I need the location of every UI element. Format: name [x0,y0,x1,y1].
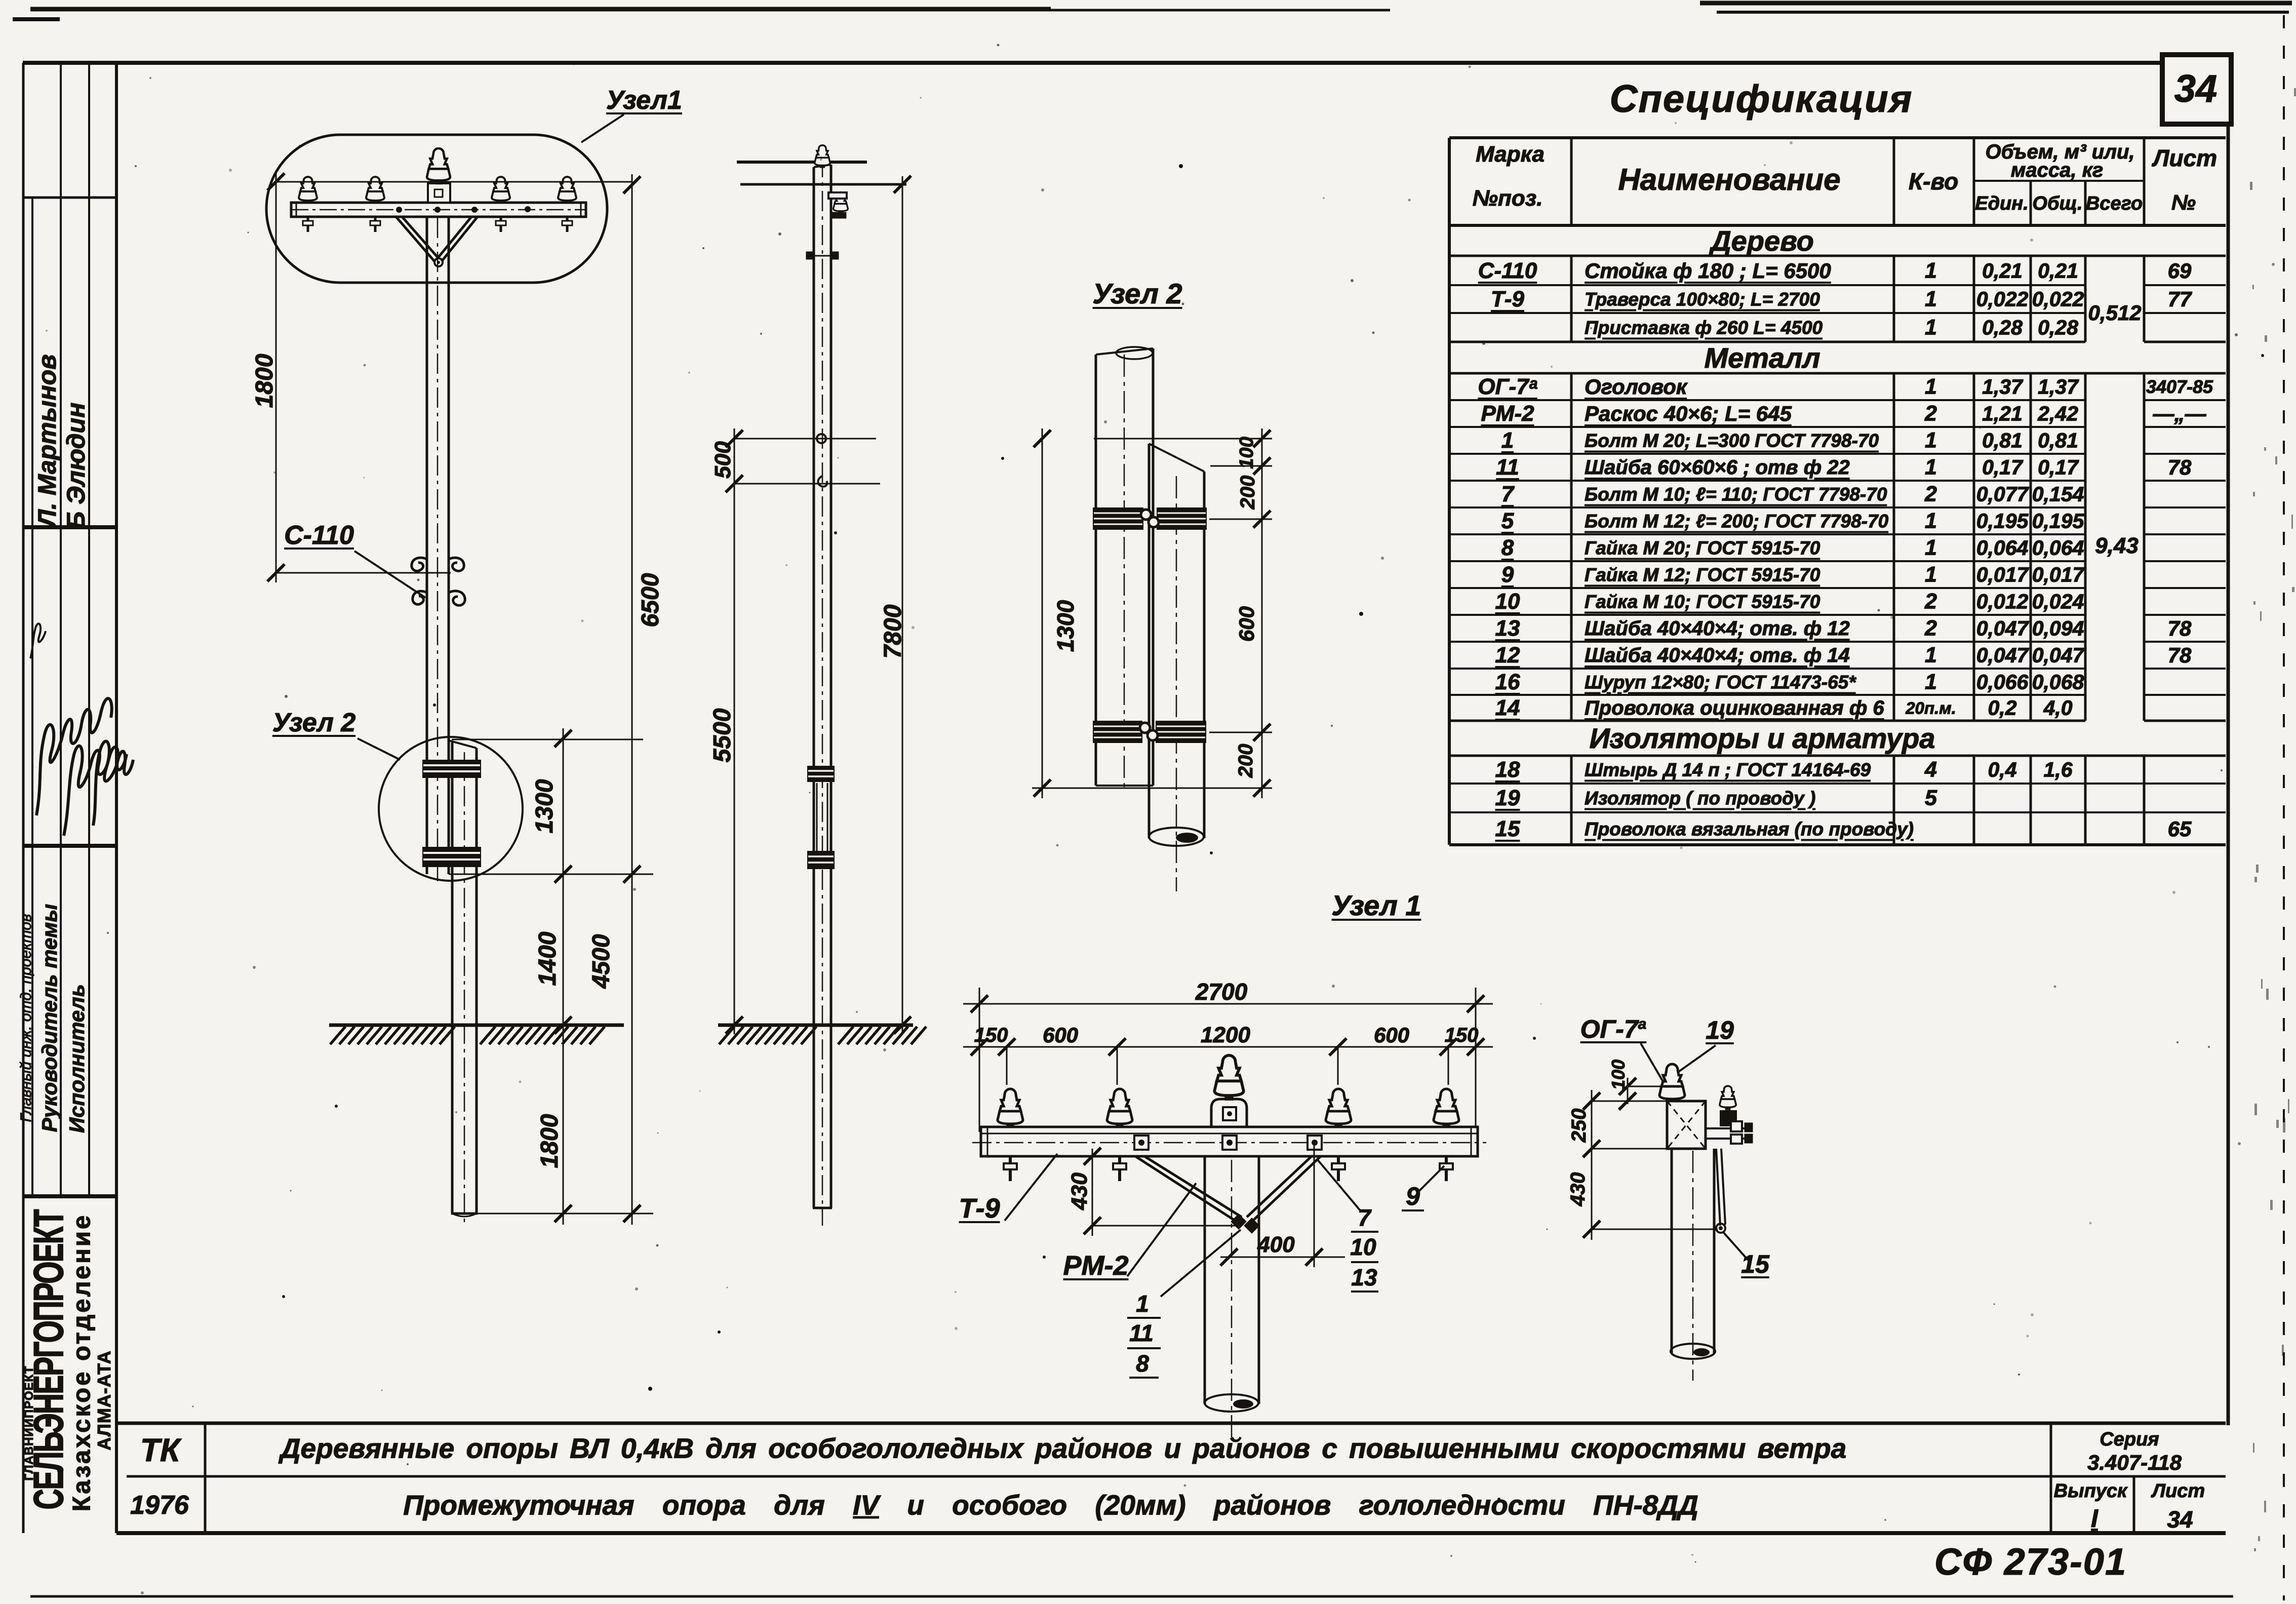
stamp strip horizontal divider top [23,197,116,199]
stamp strip bold divider 3 [23,1194,116,1198]
leader stack7 to bolt [1318,1160,1360,1210]
Т-9 label [959,1195,1000,1222]
frame top border [23,61,2170,65]
Лист label [2152,1481,2205,1501]
title row 1 text [281,1435,1846,1463]
label Исполнитель rotated [66,984,88,1133]
og7 pole [1671,1149,1673,1353]
frame left outer border [22,63,25,1533]
top scan artifact double line right [1700,1,2292,6]
table row 5 [1501,510,1514,532]
scan speckles [1179,164,1183,168]
Выпуск value I [2091,1506,2098,1531]
Узел 1 top label [606,87,682,113]
leader 19 [1677,1045,1716,1073]
header К-во [1909,170,1958,193]
Узел 2 label front [272,710,355,736]
Узел 2 detail title [1093,280,1182,308]
section Металл [1704,344,1820,372]
small dash top-left [13,17,60,21]
title block vertical TK cell [204,1423,207,1533]
leader 9 [1418,1166,1444,1192]
Лист value 34 [2167,1508,2193,1531]
signature squiggle 1 [36,698,112,815]
leader 15 [1724,1233,1748,1260]
merged Всего 9,43 [2095,535,2139,557]
side ground hatch [719,1027,734,1044]
top scan artifact line left [30,7,1051,12]
front dim 1300/1400/1800 line [563,728,564,1225]
Uzel2 reference circle [379,737,523,881]
uzel1 apex bolts [1232,1215,1245,1228]
pin+nut under crossarm [374,217,377,232]
table row 18 [1495,759,1520,781]
АЛМА-АТА rotated [95,1350,113,1451]
uzel1 brace left [1135,1156,1242,1222]
leader line Узел1 to oval [581,114,624,142]
name Б Элюдин rotated [63,403,89,530]
uzel1 pole [1204,1156,1206,1404]
section Изоляторы и арматура [1590,724,1935,753]
brace attach bolts on crossarm [396,207,402,213]
uzel2 pristavka pole [1148,444,1151,838]
front pole lower shaft pristavka [449,740,477,748]
stamp strip vertical divider 2 [60,65,62,1196]
spec table row lines [1449,255,2226,257]
signature squiggle 3 [93,741,133,826]
uzel1 dim 2700 [979,988,980,1132]
table row 7 [1501,483,1514,505]
side ground line [718,1024,913,1027]
uzel2 right dim line [1261,428,1263,798]
side dim 500/5500 [734,428,735,1034]
front splice band lower [422,847,481,867]
table row РМ-2 [1481,403,1534,425]
og7 dims [1591,1090,1593,1240]
stamp strip bold divider 1 [23,525,116,529]
leader T-9 [1005,1154,1057,1221]
side dim 7800 [902,176,903,1034]
stamp strip right border / drawing frame left [115,63,118,1533]
uzel2 ext lines [1094,438,1272,440]
table row Т-9 [1491,288,1524,310]
uzel1 crossarm [981,1127,1478,1156]
table row ОГ-7ᵃ [1478,376,1537,398]
table row 12 [1495,644,1520,667]
Казахское отделение rotated [70,1214,95,1511]
og7 brace edge view [1716,1149,1725,1226]
table row 19 [1495,787,1520,809]
og7 top insulator [1659,1064,1685,1102]
front dim 6500/4500 line [631,174,633,1225]
uzel1 brace right [1247,1156,1321,1222]
Серия text [2100,1430,2159,1449]
ОГ-7 label [1580,1016,1647,1042]
uzel2 left dim 1300 [1042,428,1043,798]
ТК text [140,1434,180,1466]
СЕЛЬЭНЕРГОПРОЕКТ rotated [28,1210,70,1509]
position stack 1/11/8 [1136,1292,1149,1315]
right page edge dashed artifact [2283,15,2285,1600]
РМ-2 label [1063,1252,1128,1279]
pin+nut under crossarm [500,217,502,232]
leader С-110 to pole [354,551,425,598]
leader РМ-2 [1127,1183,1196,1276]
leader Узел2 label to circle [358,738,400,760]
frame right border [2227,122,2230,1425]
3.407-118 text [2087,1452,2182,1473]
front ext lines [452,739,643,740]
hooks on front pole [412,558,427,571]
side hooks [817,434,826,443]
front pole upper shaft [426,217,428,874]
title block middle line [127,1475,2226,1478]
table row С-110 [1478,260,1537,282]
uzel2 wire band upper [1093,507,1143,530]
stamp strip vertical divider 3 [88,65,90,1196]
side view wires [737,161,867,164]
front crossarm [291,203,586,217]
front dim 1800 upper [276,181,632,183]
label 19 [1706,1018,1734,1043]
page number 34 [2174,70,2218,108]
page number box 34 [2162,55,2231,124]
label 9 [1406,1184,1420,1209]
front pole bottom cap [451,1212,478,1215]
header Марка №поз. [1476,143,1545,166]
pin+nut under crossarm [307,217,309,232]
table row 16 [1495,671,1520,693]
Спецификация title [1610,80,1913,119]
front center insulator [427,148,450,183]
og7 second insulator [1720,1086,1736,1109]
header Лист № [2153,146,2217,170]
table row 13 [1495,617,1520,640]
small ГЛАВНИИПРОЕКТ rotated [23,1366,35,1481]
front center block on pole top [428,183,450,203]
spec table outer+header lines [1449,136,2226,139]
leader stack to apex [1161,1230,1241,1297]
table row Приставка [1585,319,1823,337]
side pole [813,167,815,1208]
title block bottom line [116,1531,2226,1535]
title block vertical seriya cell [2050,1423,2052,1533]
side splice double lines [816,783,818,853]
spec table column lines body [1570,256,1573,342]
front ground hatch [330,1027,345,1044]
uzel1 dim 430 [1092,1149,1093,1236]
signature small mark [30,623,46,658]
1976 text [130,1492,189,1518]
title block vertical vypusk/list divider [2133,1476,2135,1533]
table row 9 [1501,564,1514,586]
signature squiggle 2 [64,746,127,836]
uzel1 dim 400 [1220,1257,1345,1258]
front ground line [329,1024,624,1027]
name Л.Мартынов rotated [34,355,60,527]
og7 traverse end view [1667,1101,1706,1149]
uzel1 center block [1211,1099,1247,1127]
section Дерево [1711,227,1814,255]
Выпуск label [2054,1481,2127,1501]
side splice bands [807,766,835,782]
stamp strip bold divider 2 [23,844,116,848]
uzel1 side insulators [998,1089,1023,1127]
uzel1 center insulator [1214,1055,1244,1099]
front splice band upper [422,760,481,778]
СФ 273-01 document number [1934,1543,2127,1581]
apex bolt [434,258,443,266]
merged Всего 0,512 [2088,302,2141,324]
table row 11 [1496,456,1519,479]
side top insulator [815,145,830,167]
uzel1 crossarm bolts [1134,1136,1149,1150]
front view oval around crossarm [266,135,607,283]
table row 10 [1495,591,1520,613]
label 15 [1741,1251,1769,1277]
side secondary insulator cluster [834,192,848,213]
table row 14 [1495,697,1520,719]
table row 1 [1501,429,1514,452]
label Руководитель темы rotated [39,904,60,1132]
side pole bottom cap [813,1207,832,1209]
scan noise speckles [1372,332,1375,334]
header Объем м3 или масса кг [1985,142,2134,162]
front V-brace left [396,217,439,261]
bottom scan edge line [30,1595,2233,1598]
stamp strip vertical divider 1 [31,198,33,1196]
og7 bolts right [1706,1127,1748,1129]
uzel2 wire band lower [1093,721,1142,743]
table row 8 [1501,537,1514,559]
position stack 7/10/13 [1358,1206,1371,1229]
С-110 label [284,522,354,549]
Узел 1 detail title [1332,891,1421,920]
label Главный инж. rotated [19,914,34,1122]
header Наименование [1618,165,1840,195]
front side insulators [299,177,317,203]
title row 2 text [403,1492,1698,1519]
uzel1 dim row 150-600-1200-600-150 [963,1046,1493,1048]
table row 15 [1495,818,1520,840]
front V-brace right [438,217,478,261]
side clamp [807,252,814,259]
pin+nut under crossarm [566,217,569,232]
title block top line [116,1422,2226,1425]
leader ОГ-7 [1641,1043,1676,1104]
uzel2 stoyka pole [1095,355,1097,786]
